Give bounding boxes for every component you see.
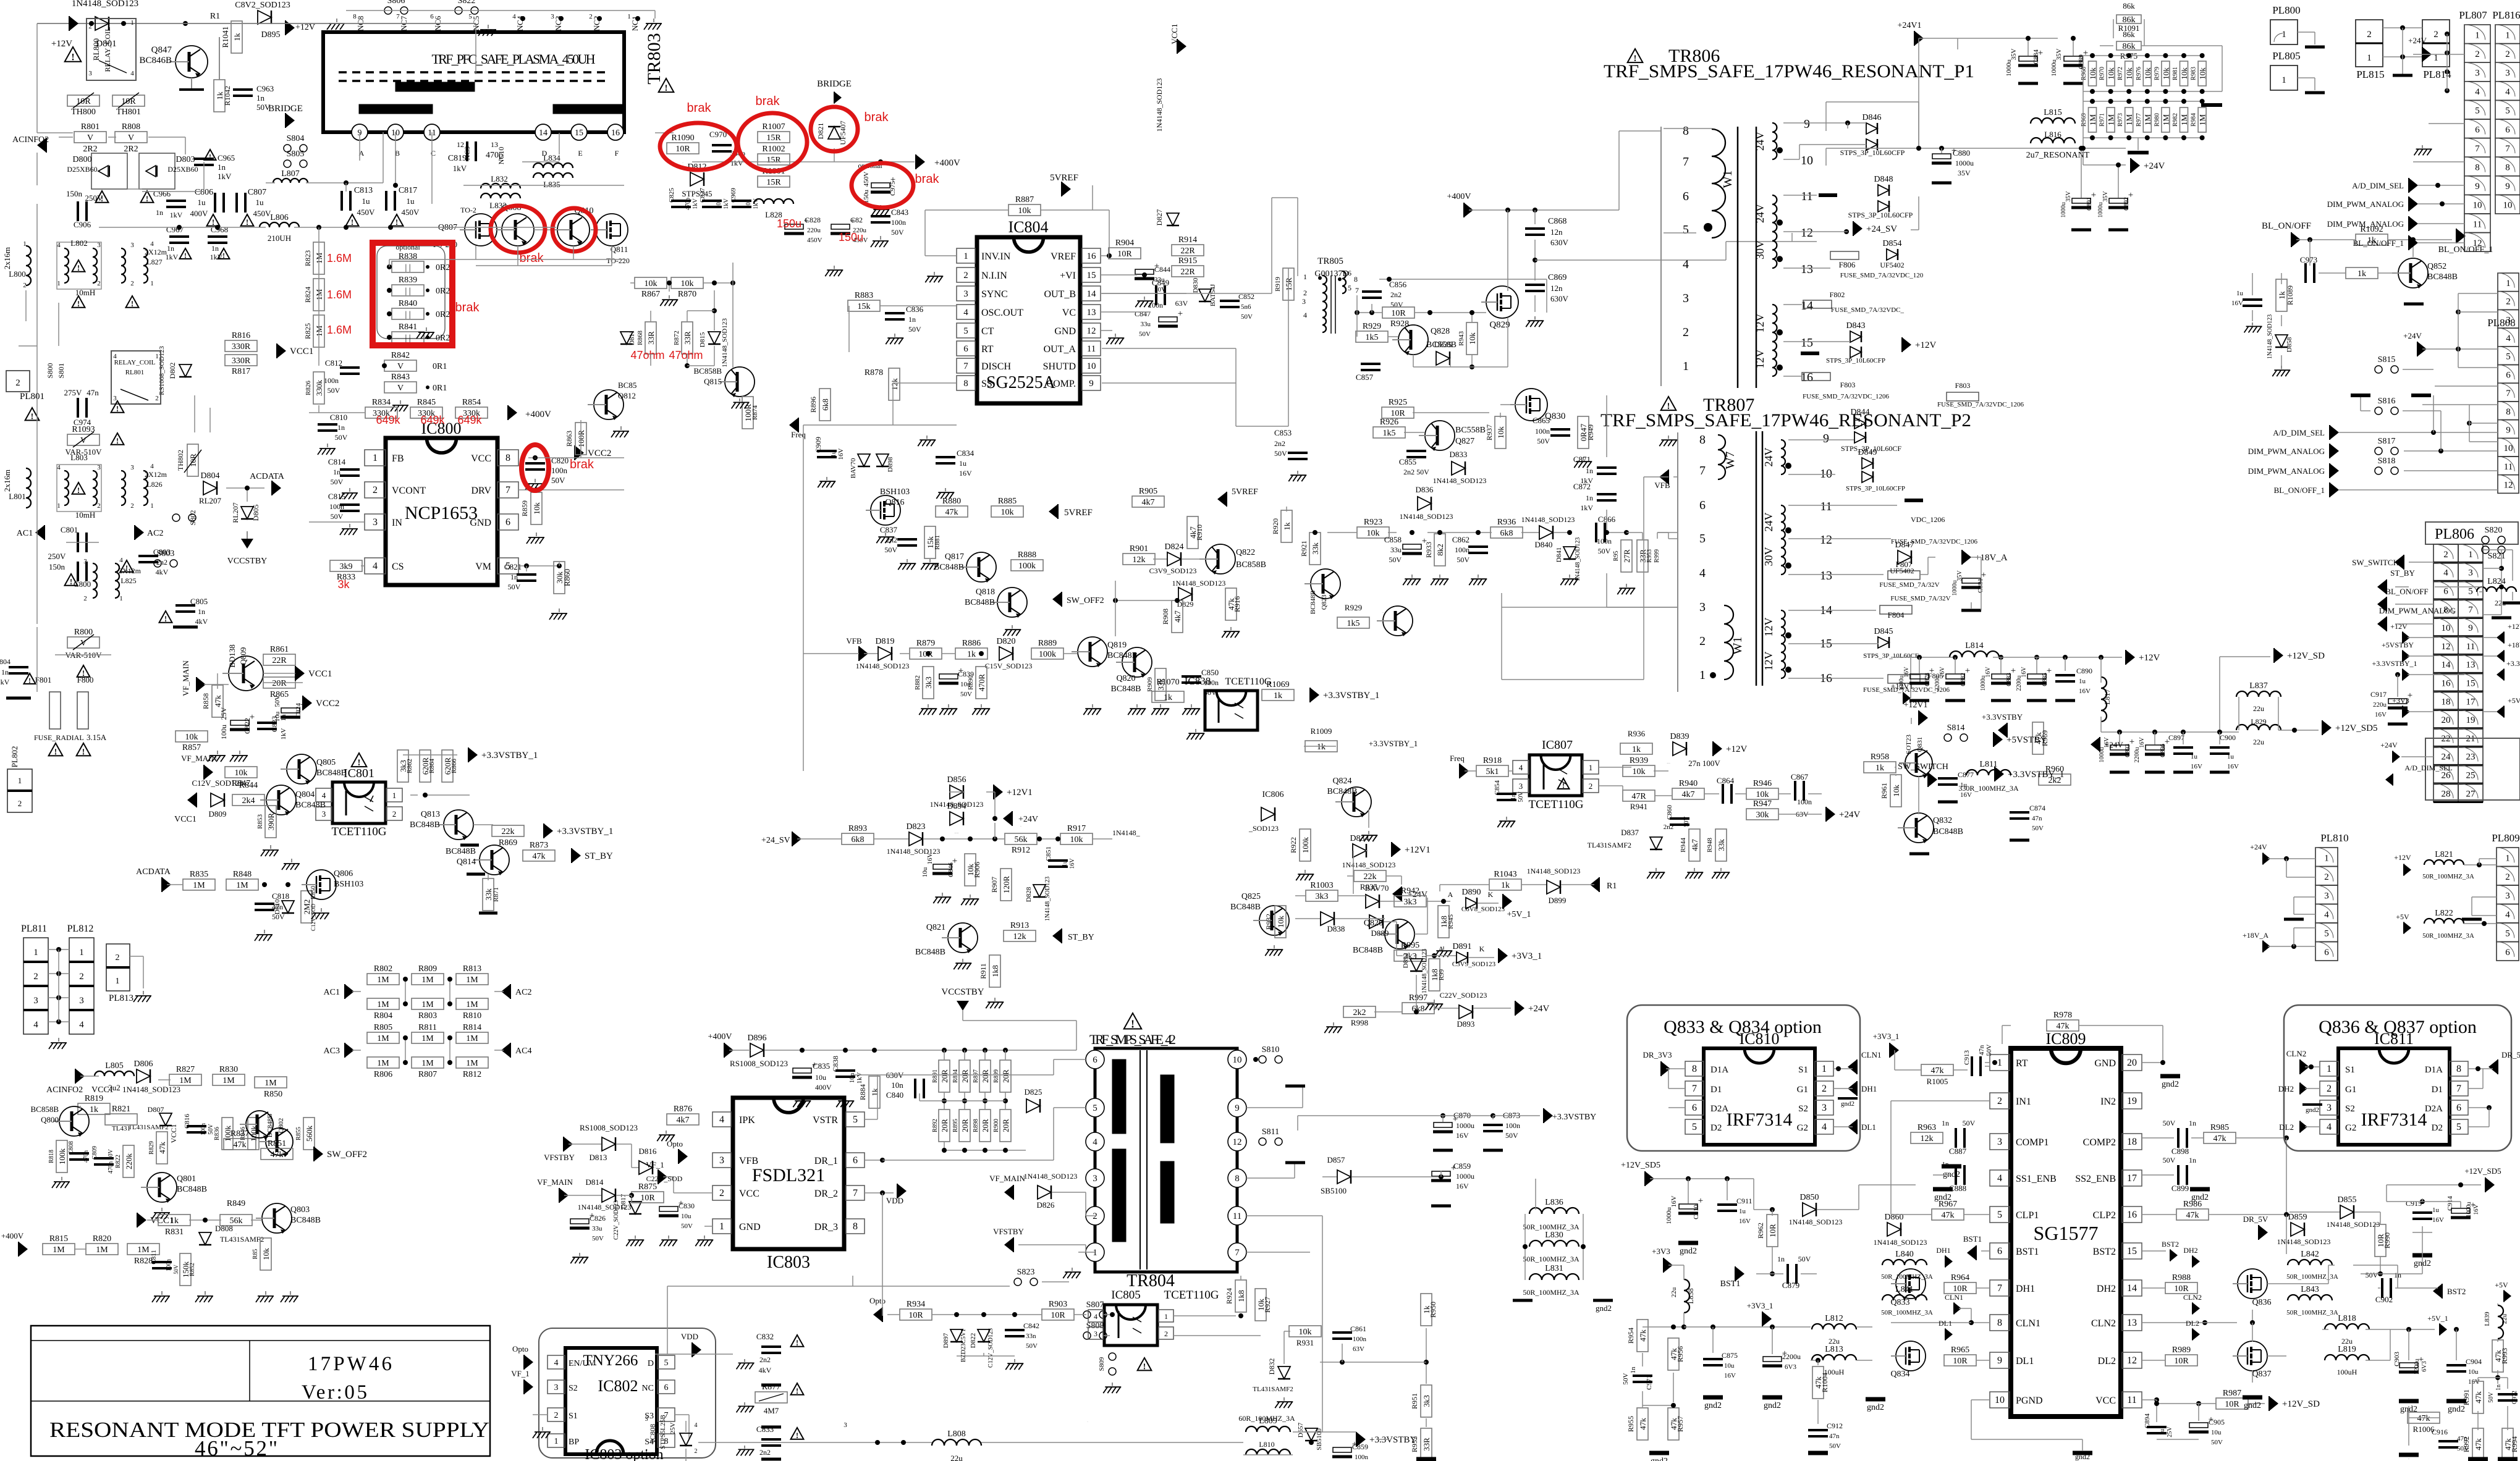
svg-text:18: 18 [2442,697,2451,707]
diode D819 [875,637,894,660]
svg-text:1M: 1M [421,1059,434,1068]
svg-text:+12V1: +12V1 [1007,788,1033,798]
svg-text:| |: | | [405,310,410,319]
capacitor C824 [281,700,305,717]
svg-text:16V: 16V [2079,688,2091,695]
svg-text:C834: C834 [957,448,975,458]
resistor R850b [255,1077,287,1088]
mosfet Q836 [2233,1269,2267,1299]
svg-text:47R: 47R [1631,792,1646,801]
svg-text:15: 15 [575,128,583,138]
svg-text:10R: 10R [1117,250,1132,259]
resistor R1089b [2346,267,2378,279]
svg-text:3: 3 [2475,69,2480,78]
capacitor C913 [1972,1056,1981,1076]
svg-text:16V: 16V [2231,300,2243,307]
svg-text:D858: D858 [2286,337,2293,352]
svg-text:VCCSTBY: VCCSTBY [941,987,984,997]
svg-text:BC858B: BC858B [693,366,722,376]
svg-text:+3V3_1: +3V3_1 [1512,951,1542,961]
svg-text:16V: 16V [959,469,972,478]
svg-text:FUSE_SMD_7A/32V: FUSE_SMD_7A/32V [1890,595,1950,602]
svg-text:R864: R864 [428,759,436,773]
resistor R996 [1429,959,1440,991]
diode D812 [687,162,706,186]
resistor R948 [1715,829,1727,861]
svg-text:gnd2: gnd2 [1764,1401,1781,1410]
wire dr1 [865,1160,882,1161]
net flag DIM_PWM d [2330,463,2339,478]
net flag VCCSTBY [241,539,253,549]
svg-text:100k: 100k [1018,562,1036,571]
svg-text:16V: 16V [1456,1131,1469,1140]
svg-text:R1005: R1005 [1927,1077,1948,1086]
svg-text:!: ! [1143,1363,1146,1372]
svg-text:Q831: Q831 [1916,737,1924,752]
net flag DIM_PWM e [2377,617,2387,631]
capacitor C846 [932,856,957,874]
IC802 pin 6 [657,1380,675,1394]
IC804 pin 4 OSC.OUT [957,305,975,319]
svg-text:R862: R862 [406,759,413,773]
svg-text:22R: 22R [1180,246,1195,256]
svg-text:7: 7 [963,361,968,371]
svg-text:6k8: 6k8 [1500,529,1513,538]
wire ic800 supply [528,457,624,458]
net flag Freq b [1460,764,1469,778]
svg-text:Q811: Q811 [611,245,628,254]
mosfet Q830 [1510,389,1547,421]
svg-text:1u: 1u [256,198,264,207]
svg-text:R855: R855 [295,1127,302,1140]
mosfet Q833 [1891,1269,1926,1299]
resistor R973 [2125,107,2134,132]
svg-text:Q812: Q812 [618,391,636,400]
svg-text:50V: 50V [173,1265,179,1274]
svg-text:DL2: DL2 [2098,1356,2116,1366]
svg-text:C861: C861 [1350,1324,1366,1333]
svg-text:TRF_SMPS_SAFE_42: TRF_SMPS_SAFE_42 [1089,1032,1176,1047]
diode D850 [1799,1193,1819,1216]
gnd ic802 [533,1427,551,1438]
svg-text:ST_BY: ST_BY [2390,568,2415,578]
svg-text:DISCH: DISCH [981,361,1011,372]
IC809 pin 2 IN1 [1990,1093,2010,1109]
wire sg2525 to tr805 [1272,197,1298,198]
IC807 inner [1543,763,1545,789]
svg-text:6: 6 [853,1155,858,1166]
svg-text:20R: 20R [1001,1119,1010,1132]
PL806 row 14/13 [2433,655,2458,673]
svg-text:4kV: 4kV [195,617,208,626]
svg-text:6: 6 [430,13,434,20]
coil L831 [1529,1264,1579,1280]
resistor R990 [2375,1224,2386,1257]
PL806 row 2/1 [2433,544,2458,563]
svg-text:10u: 10u [1724,1362,1735,1370]
resistor R815 [43,1234,75,1255]
pl806 box 23-28 [2425,738,2520,800]
svg-text:R831: R831 [165,1227,184,1237]
svg-text:50V: 50V [1274,449,1287,458]
capacitor C892 [2108,190,2133,208]
net flag 3.3VSTBY pl806r [2497,668,2504,680]
svg-text:+400V: +400V [525,410,551,419]
svg-text:15: 15 [2466,679,2476,689]
net flag ACDATA [272,481,281,495]
TR803 pin 9 [352,124,368,140]
diode D813 [602,1137,615,1151]
svg-text:VFSTBY: VFSTBY [544,1153,575,1162]
gnd c869 [1526,316,1544,327]
cap C800 [78,562,87,581]
svg-text:1N4148_SOD123: 1N4148_SOD123 [1342,861,1396,869]
IC809 pin 4 SS1_ENB [1990,1170,2010,1186]
IC804 pin 8 SS [957,376,975,390]
svg-text:PL806: PL806 [2435,526,2474,542]
svg-text:C: C [431,149,436,158]
svg-text:50R_100MHZ_3A: 50R_100MHZ_3A [1523,1288,1579,1297]
svg-text:C842: C842 [1023,1321,1039,1330]
IC810 pin 7 [1685,1081,1704,1096]
svg-text:7: 7 [505,485,510,495]
resistor R864 [420,750,431,782]
svg-text:50V: 50V [1139,331,1151,338]
IC803 option box [539,1328,716,1458]
transistor Q831 [1899,749,1932,778]
svg-text:D806: D806 [133,1059,153,1069]
PL808 pin 10 [2498,438,2519,457]
svg-text:C832: C832 [756,1332,774,1341]
transformer TR805 [1302,256,1359,334]
svg-text:13: 13 [2127,1318,2137,1328]
svg-text:!: ! [1562,781,1565,790]
svg-text:16V: 16V [2375,711,2387,718]
resistor R876 [667,1105,699,1125]
svg-text:R849: R849 [227,1199,245,1208]
svg-text:R990: R990 [2383,1232,2391,1248]
wire ct [880,305,957,306]
svg-text:3.15A: 3.15A [87,733,107,742]
PL806 row 16/15 [2433,673,2458,692]
svg-text:3: 3 [1093,1174,1097,1184]
svg-text:47n: 47n [87,388,99,397]
wire mid vertical [1606,395,1607,457]
gnd C814 [340,488,358,499]
svg-text:D897: D897 [942,1333,950,1348]
svg-text:20: 20 [2127,1058,2137,1068]
svg-text:6: 6 [1692,1103,1697,1113]
svg-text:IC802: IC802 [598,1377,638,1395]
svg-text:D25XB60: D25XB60 [167,165,198,174]
jumper S823 [1014,1268,1038,1286]
svg-text:!: ! [77,263,80,272]
mosfet Q816 [866,495,900,525]
svg-text:5VREF: 5VREF [1050,173,1078,183]
label Q847 BC846B [139,45,172,65]
svg-text:28: 28 [2442,789,2451,799]
resistor R895 [959,1109,970,1142]
svg-text:12: 12 [1233,1137,1242,1147]
diode D860 [1884,1213,1903,1236]
svg-text:C858: C858 [1384,535,1402,544]
warning ic805 [1138,1358,1152,1372]
transistor Q832 [1898,813,1934,843]
svg-text:8k2: 8k2 [1435,544,1445,556]
IC809 pin 17 SS2_ENB [2122,1170,2142,1186]
svg-text:NCP1653: NCP1653 [405,503,478,523]
connector PL814 [2422,20,2451,80]
capacitor C840 [915,1079,924,1098]
svg-text:Q852: Q852 [2427,262,2446,271]
svg-text:C811: C811 [150,1250,158,1264]
svg-text:33k: 33k [1311,542,1320,555]
svg-text:2: 2 [392,809,397,819]
svg-text:R937: R937 [1485,424,1494,440]
svg-text:R900: R900 [993,1119,1000,1132]
coil L815 [2031,108,2075,124]
svg-text:D843: D843 [1846,321,1865,331]
IC811 pin 2 [2320,1081,2338,1096]
svg-text:2: 2 [1997,1096,2002,1106]
svg-text:R972: R972 [2117,67,2124,80]
capacitor C850 [1182,676,1201,683]
PL806 row 22/21 [2433,728,2458,747]
resistor R884 [869,1076,880,1108]
wire mosfet drains [395,132,396,185]
svg-text:R971: R971 [2099,113,2106,127]
svg-text:1N4148_SOD123: 1N4148_SOD123 [2267,314,2273,359]
ic IC802 outline [565,1348,657,1454]
diode D822 [978,1329,990,1342]
svg-text:14: 14 [2442,660,2451,670]
wire vfb [864,653,877,654]
svg-text:+3.3VSTBY_1: +3.3VSTBY_1 [2372,659,2417,668]
svg-text:DH1: DH1 [2016,1284,2035,1294]
svg-text:+3.3VSTBY_1: +3.3VSTBY_1 [2506,659,2520,668]
svg-text:N.I.IN: N.I.IN [981,271,1007,281]
gnd q822 [1222,627,1240,638]
svg-text:TL431SAMF2: TL431SAMF2 [220,1235,264,1244]
coil L838 [1684,1279,1689,1313]
svg-text:1M: 1M [264,1079,277,1088]
svg-text:R891: R891 [932,1069,939,1083]
svg-text:C840: C840 [886,1090,903,1100]
svg-text:TCET110G: TCET110G [1528,798,1583,811]
svg-text:!: ! [665,83,668,93]
svg-text:IC838: IC838 [1185,675,1211,687]
svg-text:10k: 10k [1276,916,1285,928]
svg-text:PL811: PL811 [21,924,47,934]
svg-text:5: 5 [1997,1210,2002,1220]
svg-text:7: 7 [853,1188,858,1198]
svg-text:8: 8 [2456,1064,2461,1074]
net flag VFSTBY b [1004,1237,1013,1252]
svg-text:33u: 33u [592,1225,603,1232]
resistor R910 [1187,516,1198,549]
wire l836 [1524,1214,1526,1280]
svg-text:50V: 50V [1622,1373,1630,1384]
pl807 wires [2413,54,2464,55]
svg-text:A/D_DIM_SEL: A/D_DIM_SEL [2404,764,2452,772]
svg-text:19: 19 [2466,715,2476,725]
svg-text:D837: D837 [1621,828,1639,837]
svg-text:1u: 1u [407,196,415,206]
svg-text:D811: D811 [628,331,636,345]
net flag SW_OFF2 a [1052,592,1062,607]
svg-text:R892: R892 [932,1119,939,1132]
resistor R922 [1300,829,1311,861]
svg-text:1n: 1n [908,315,916,324]
transistor Q826 [1379,919,1414,949]
svg-text:R978: R978 [2053,1011,2072,1020]
svg-text:C6V8_SOD123: C6V8_SOD123 [1461,906,1505,913]
svg-text:C892: C892 [2123,197,2130,211]
svg-text:1: 1 [963,251,968,261]
net flag 3.3VSTBY d [1998,723,2007,738]
wire pfc input [142,191,204,192]
wire 12v long [1911,718,1912,724]
svg-text:10n: 10n [716,200,722,209]
IC803 pin 4 IPK [712,1112,731,1127]
svg-text:R916: R916 [1233,596,1241,612]
TR807 heading [1661,397,1676,411]
resistor R818 [56,1140,67,1173]
resistor R957 [1668,1408,1679,1440]
svg-text:1.6M: 1.6M [327,252,352,264]
svg-text:C860: C860 [1666,805,1673,820]
svg-text:COMP2: COMP2 [2083,1137,2116,1148]
IC802 pin 5 [657,1355,675,1369]
svg-text:R839: R839 [399,276,417,285]
warning IC801 [352,753,367,768]
svg-text:+18V_A: +18V_A [2508,641,2520,649]
net flag VF_MAIN 2 [204,765,213,780]
TR807 winding W7 [1659,435,1737,479]
svg-text:9: 9 [1804,117,1810,131]
svg-text:1: 1 [1093,1248,1097,1258]
IC802 pin 4 [548,1355,565,1369]
wire acinfo [80,1076,99,1077]
power flag +24V pl807 [2422,47,2432,62]
resistor R929b [1337,617,1369,628]
resistor R908 [1172,600,1183,633]
diode D805 RL207 [241,507,253,519]
svg-text:47ohm: 47ohm [630,349,664,361]
gnd2 q837 [2243,1397,2262,1410]
coil L828 [754,199,793,204]
wire q831 [1918,777,1919,814]
svg-text:1n: 1n [2189,1119,2196,1127]
TR806 sec 30V [1754,232,1783,268]
svg-text:D839: D839 [1670,732,1689,741]
svg-text:VCC1: VCC1 [174,815,197,824]
svg-text:R965: R965 [1951,1345,1969,1355]
svg-text:1kV: 1kV [280,728,287,739]
svg-text:C878: C878 [1924,673,1931,686]
svg-text:DH1: DH1 [1861,1084,1877,1093]
capacitor C871 [1597,468,1617,474]
svg-text:7: 7 [2468,605,2473,615]
transistor Q810 [551,214,590,246]
svg-text:10k: 10k [2107,67,2116,80]
svg-text:1: 1 [2367,53,2372,63]
svg-text:5VREF: 5VREF [1232,487,1258,497]
svg-text:L831: L831 [1545,1264,1563,1273]
PL809 pin 6 [2497,942,2519,961]
svg-text:1: 1 [2324,853,2329,863]
resistor R971 [2107,107,2116,132]
svg-text:STPS5L25B: STPS5L25B [659,1415,667,1449]
net flag CLN1 c [1954,1302,1961,1314]
transformer L802 [57,238,101,289]
resistor R1007 [758,122,790,143]
svg-text:630V: 630V [1550,238,1569,247]
svg-text:R924: R924 [1225,1288,1233,1304]
svg-text:C864: C864 [1717,776,1735,785]
capacitor C847 [1158,309,1183,326]
capacitor C914 [2451,1200,2476,1218]
svg-text:D813: D813 [590,1153,607,1162]
svg-text:D803: D803 [175,155,195,164]
label 1N4148_SOD123 D801 [72,0,138,49]
svg-text:Q837: Q837 [2252,1370,2271,1379]
svg-text:Freq: Freq [791,430,806,439]
capacitor C829 [831,216,855,234]
svg-text:D2: D2 [2432,1123,2443,1133]
diode D815 [708,332,721,344]
svg-text:1: 1 [1164,1312,1168,1321]
svg-text:100uH: 100uH [2337,1368,2357,1376]
svg-text:2: 2 [97,502,101,510]
svg-text:Opto: Opto [869,1296,886,1305]
net flag DL1 c [1945,1328,1953,1340]
capacitor C816 [187,1126,206,1132]
resistor R880 [936,497,968,517]
svg-text:8: 8 [505,453,510,463]
svg-text:10u: 10u [681,1213,691,1220]
net flag BL_ON/OFF e [2377,597,2387,612]
net flag Opto c [873,1307,882,1322]
wire pfc out [655,132,674,133]
svg-text:Q817: Q817 [945,552,964,562]
svg-text:1kV: 1kV [453,164,467,173]
wire bottom long 2 [853,1074,877,1076]
svg-text:DRV: DRV [471,486,492,496]
svg-text:EN/UV: EN/UV [569,1359,595,1368]
svg-text:CS: CS [392,562,404,572]
svg-text:2X12m: 2X12m [119,566,142,575]
svg-text:1000u: 1000u [2466,1202,2472,1218]
net flag +3V3_1 b [1499,948,1542,963]
svg-text:R948: R948 [1706,838,1714,853]
resistor R867 [635,277,667,288]
svg-text:L843: L843 [2301,1285,2319,1294]
capacitor C897 [2173,747,2193,754]
resistor R903 [1042,1300,1074,1320]
IC804 pin 10 SHUTD [1082,358,1101,373]
red ellipse R100x [738,113,807,171]
wire sd5 to sg1577 [1858,1185,1859,1210]
net flag VDD a [897,1184,907,1198]
svg-text:R994: R994 [2510,1436,2519,1452]
svg-text:1k: 1k [2277,291,2286,300]
svg-text:27: 27 [2466,789,2476,799]
svg-text:Q800: Q800 [41,1115,59,1124]
svg-text:16V: 16V [1456,1182,1469,1190]
svg-text:C880: C880 [1953,148,1970,158]
gnd NC8 [327,19,345,30]
